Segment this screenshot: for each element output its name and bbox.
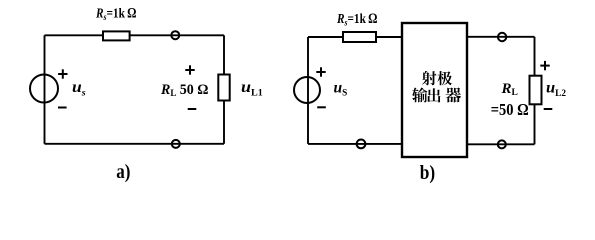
wire: circuit b bottom horizontal, source to amplifier box (308, 143, 402, 145)
wire: circuit a left vertical (source branch) (44, 35, 46, 144)
svg-text:Rs=1k Ω: Rs=1k Ω (95, 5, 136, 23)
minus sign below RL label (circuit a) (188, 108, 197, 110)
svg-text:RL 50 Ω: RL 50 Ω (160, 82, 208, 99)
svg-text:a): a) (116, 161, 130, 183)
wire: circuit a right vertical (load branch) (223, 35, 225, 144)
label 器 (block text line 2) (446, 87, 461, 102)
plus sign above RL label (circuit a) (185, 69, 194, 71)
wire: circuit b top horizontal, amplifier box to load (467, 36, 535, 38)
voltage source u_s (circle symbol) (30, 75, 58, 103)
node terminal circle, bottom right of block (498, 140, 506, 148)
wire: circuit b right vertical (load branch) (534, 37, 536, 145)
resistor RS (series box, circuit a) (103, 31, 130, 40)
svg-text:uL2: uL2 (546, 79, 567, 98)
resistor RL load box (circuit a) (218, 75, 229, 101)
node terminal circle, top of circuit a (171, 31, 179, 39)
svg-text:RL: RL (501, 81, 518, 98)
label 出 (block text line 2) (427, 88, 440, 102)
svg-text:b): b) (420, 162, 435, 184)
emitter-follower block (射极输出器 box) (402, 23, 467, 157)
plus sign at source u_S (circuit b) (316, 71, 325, 73)
voltage source u_S (circle symbol, circuit b) (294, 77, 320, 103)
resistor RL load box (circuit b) (530, 76, 542, 105)
wire: circuit a bottom horizontal (45, 143, 225, 145)
wire: circuit a top horizontal (45, 34, 225, 36)
svg-text:=50 Ω: =50 Ω (491, 100, 529, 119)
minus sign at source u_S (circuit b) (317, 106, 326, 108)
wire: circuit b left vertical (source branch) (307, 37, 309, 144)
minus sign at source u_s (58, 107, 67, 109)
label 射 (block text line 1) (422, 71, 437, 85)
label 输 (block text line 2) (412, 87, 427, 102)
node terminal circle, bottom left of block (357, 140, 366, 149)
label 极 (block text line 1) (437, 71, 452, 85)
plus sign at source u_s (58, 73, 67, 75)
svg-text:us: us (72, 79, 86, 98)
node terminal circle, bottom of circuit a (172, 140, 180, 148)
node terminal circle, top right of block (498, 33, 506, 41)
svg-text:uS: uS (334, 80, 348, 99)
wire: circuit b top horizontal, source to amplifier box (308, 36, 402, 38)
svg-text:uL1: uL1 (241, 79, 263, 98)
plus sign above u_L2 (circuit b) (540, 65, 549, 67)
wire: circuit b bottom horizontal, amplifier box to load (467, 143, 535, 145)
resistor RS (series box, circuit b) (343, 32, 376, 42)
minus sign below u_L2 (circuit b) (544, 108, 553, 110)
svg-text:Rs=1k Ω: Rs=1k Ω (336, 11, 377, 29)
